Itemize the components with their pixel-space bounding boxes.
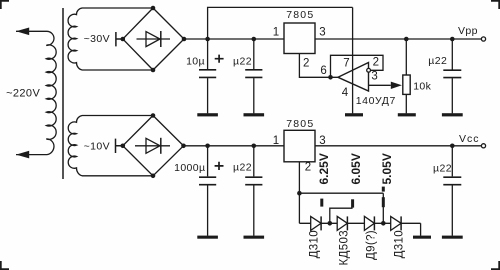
svg-text:Vpp: Vpp <box>458 25 478 37</box>
svg-text:µ22: µ22 <box>433 162 452 174</box>
svg-text:7805: 7805 <box>286 118 314 130</box>
svg-text:~10V: ~10V <box>84 141 110 153</box>
svg-text:140УД7: 140УД7 <box>356 95 396 107</box>
svg-text:7: 7 <box>343 57 350 69</box>
svg-text:~220V: ~220V <box>6 88 40 100</box>
svg-text:6.25V: 6.25V <box>317 153 331 184</box>
svg-text:1: 1 <box>273 135 280 147</box>
svg-text:4: 4 <box>342 87 349 99</box>
svg-text:µ22: µ22 <box>233 55 252 67</box>
svg-text:3: 3 <box>371 71 378 83</box>
svg-text:2: 2 <box>305 161 312 173</box>
svg-text:~30V: ~30V <box>84 33 110 45</box>
svg-text:10µ: 10µ <box>186 55 205 67</box>
svg-text:3: 3 <box>319 135 326 147</box>
svg-text:Д310: Д310 <box>394 230 406 258</box>
svg-text:6.05V: 6.05V <box>349 153 363 184</box>
svg-text:1000µ: 1000µ <box>174 162 205 174</box>
svg-text:5.05V: 5.05V <box>380 153 394 184</box>
svg-text:7805: 7805 <box>286 9 314 21</box>
svg-text:Д9(?): Д9(?) <box>365 230 377 260</box>
svg-text:3: 3 <box>319 27 326 39</box>
svg-text:1: 1 <box>273 27 280 39</box>
svg-text:6: 6 <box>320 65 327 77</box>
svg-text:µ22: µ22 <box>428 55 447 67</box>
svg-text:Д310: Д310 <box>308 230 320 258</box>
svg-text:КД503: КД503 <box>338 230 350 265</box>
svg-text:2: 2 <box>303 58 310 70</box>
svg-text:10k: 10k <box>413 80 431 92</box>
svg-text:µ22: µ22 <box>233 162 252 174</box>
svg-text:Vcc: Vcc <box>459 133 480 145</box>
svg-text:2: 2 <box>373 57 380 69</box>
